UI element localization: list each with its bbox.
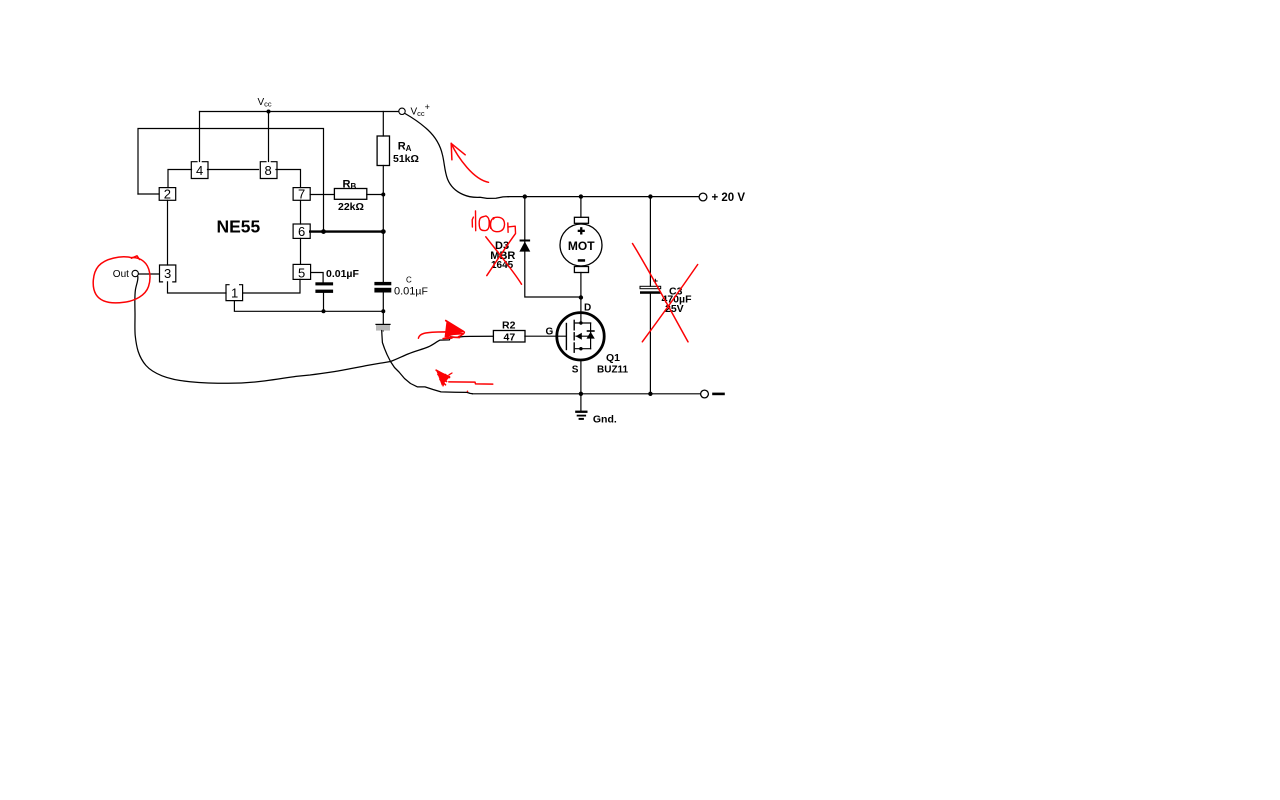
node thick bus junction right bbox=[381, 229, 386, 234]
motor MOT bottom terminal bbox=[574, 267, 588, 273]
capacitor C3 top plate outline bbox=[640, 286, 661, 288]
motor MOT body circle bbox=[560, 224, 602, 266]
wire pin2 to pin3 bbox=[167, 200, 169, 265]
wire pin4 left to pin2 top bbox=[168, 170, 192, 188]
wire ground rail bbox=[473, 393, 701, 395]
node RB-RA junction bbox=[381, 193, 385, 197]
terminal Vcc+ circle bbox=[399, 108, 405, 114]
resistor RB body bbox=[334, 189, 366, 200]
wire freehand Out to R2 bbox=[135, 277, 494, 384]
diode D3 cathode bar bbox=[520, 240, 531, 242]
pin 1 bbox=[226, 285, 243, 301]
wire source to ground rail bbox=[580, 360, 582, 394]
red circle annotation around Out bbox=[93, 257, 150, 303]
transistor Q1 channel dash mid bbox=[573, 333, 575, 340]
red circle overshoot tick bbox=[132, 256, 140, 260]
terminal minus circle bbox=[701, 390, 709, 398]
diode D3 triangle bbox=[519, 242, 530, 252]
svg-text:1: 1 bbox=[231, 286, 238, 301]
svg-text:6: 6 bbox=[298, 224, 305, 239]
wire motor bottom bbox=[580, 273, 582, 298]
transistor Q1 channel dash top bbox=[573, 320, 575, 329]
wire pin4 to pin8 bbox=[208, 169, 259, 171]
red arrow annotation near Vcc bbox=[451, 143, 488, 182]
pin 3 bbox=[160, 265, 176, 282]
wire cap1 bottom bbox=[323, 293, 325, 311]
wire C3 bottom bbox=[649, 294, 651, 394]
red arrow annotation pointing right at R2 wire bbox=[418, 332, 452, 338]
wire pin4 to Vcc bbox=[199, 112, 201, 162]
wire pin3 bottom to pin1 bbox=[168, 282, 227, 293]
wire pin7 to RB bbox=[310, 194, 334, 196]
node motor-drain junction bbox=[579, 295, 583, 299]
wire pin6 thick bus bbox=[310, 230, 383, 232]
svg-text:51kΩ: 51kΩ bbox=[393, 153, 419, 165]
wire motor top bbox=[580, 197, 582, 218]
svg-text:0.01µF: 0.01µF bbox=[394, 286, 428, 298]
transistor Q1 body stub bbox=[576, 335, 591, 337]
node rail junction C3 bbox=[648, 194, 652, 198]
svg-text:Out: Out bbox=[113, 269, 129, 280]
wire RB to RA column bbox=[367, 194, 384, 196]
motor minus sign bbox=[578, 259, 585, 262]
motor MOT top terminal bbox=[574, 217, 588, 223]
wire stub over grey mark bbox=[376, 323, 390, 325]
wire C3 top bbox=[649, 197, 651, 287]
svg-text:2: 2 bbox=[164, 187, 171, 202]
transistor Q1 body diode bar bbox=[587, 330, 595, 332]
svg-text:Gnd.: Gnd. bbox=[593, 414, 617, 426]
wire RA top bbox=[382, 112, 384, 137]
red X annotation over C3 bbox=[633, 244, 689, 342]
svg-text:NE55: NE55 bbox=[217, 217, 261, 237]
wire pin1 bottom rail bbox=[234, 301, 383, 312]
pin 2 bbox=[159, 188, 176, 201]
resistor R2 body bbox=[493, 331, 525, 343]
svg-text:MOT: MOT bbox=[568, 239, 595, 253]
wire pin6 to pin5 bbox=[300, 238, 302, 264]
transistor Q1 source stub bbox=[575, 348, 590, 350]
node Vcc junction dot bbox=[267, 110, 271, 114]
wire RA bottom to cap C bbox=[382, 166, 384, 282]
red X annotation over D3 bbox=[486, 237, 522, 284]
wire +20V rail bbox=[508, 196, 699, 198]
svg-text:4: 4 bbox=[196, 163, 203, 178]
pin 7 bbox=[293, 188, 310, 201]
capacitor C1 0.01uF plates bbox=[315, 282, 333, 285]
pin 8 bbox=[260, 162, 277, 179]
svg-text:5: 5 bbox=[298, 265, 305, 280]
svg-text:8: 8 bbox=[265, 163, 272, 178]
wire pin8 right to pin7 top bbox=[276, 170, 301, 188]
transistor Q1 body circle bbox=[557, 313, 604, 360]
wire upper loop pin2 to pin6 column bbox=[138, 129, 324, 232]
wire Out to pin3 bbox=[139, 273, 160, 275]
terminal Out circle bbox=[132, 270, 138, 276]
ground symbol bbox=[580, 394, 582, 411]
red scribble 100h bbox=[472, 211, 515, 233]
svg-text:Vcc: Vcc bbox=[258, 97, 272, 109]
svg-text:S: S bbox=[572, 365, 579, 376]
transistor Q1 drain stub bbox=[575, 322, 590, 324]
red arrow annotation pointing left at ground wire bbox=[436, 370, 451, 386]
wire R2 to gate bbox=[524, 335, 526, 337]
wire pin8 to Vcc bbox=[268, 112, 270, 162]
capacitor C plates bbox=[374, 282, 391, 285]
svg-text:47: 47 bbox=[504, 332, 516, 344]
node cap1 junction bbox=[322, 309, 326, 313]
svg-text:R2: R2 bbox=[502, 319, 516, 331]
transistor Q1 body arrow bbox=[576, 333, 582, 340]
svg-text:+ 20 V: + 20 V bbox=[712, 192, 746, 204]
node ground rail junction source bbox=[579, 392, 583, 396]
capacitor C3 bottom plate bbox=[640, 291, 661, 294]
svg-text:G: G bbox=[546, 327, 554, 338]
wire freehand Vcc to +20V rail bbox=[405, 114, 509, 199]
wire freehand stub to ground rail bbox=[382, 331, 473, 394]
terminal +20V circle bbox=[699, 193, 707, 201]
svg-text:22kΩ: 22kΩ bbox=[338, 201, 364, 213]
wire drain bbox=[580, 298, 582, 324]
pin 4 bbox=[191, 162, 208, 179]
transistor Q1 body diode triangle bbox=[587, 332, 595, 339]
node rail junction motor bbox=[579, 194, 583, 198]
wire capC bottom bbox=[382, 293, 384, 331]
wire Vcc top rail bbox=[200, 111, 399, 113]
node ground rail junction C3 bbox=[648, 392, 652, 396]
motor plus sign bbox=[578, 230, 585, 232]
pin 6 bbox=[293, 224, 310, 238]
diode D3 branch wire bbox=[525, 197, 581, 297]
transistor Q1 channel dash bottom bbox=[573, 343, 575, 352]
svg-text:Q1: Q1 bbox=[606, 352, 620, 364]
wire pin5 right to cap1 bbox=[311, 273, 324, 283]
svg-text:0.01µF: 0.01µF bbox=[326, 268, 359, 280]
wire pin2 left stub bbox=[138, 193, 159, 195]
grey selection mark bbox=[376, 324, 390, 331]
transistor Q1 gate bar bbox=[565, 324, 567, 350]
svg-text:3: 3 bbox=[164, 266, 171, 281]
resistor RA body bbox=[377, 136, 389, 166]
transistor Q1 body diode branch bbox=[590, 323, 592, 349]
wire gate bbox=[525, 335, 566, 337]
svg-text:BUZ11: BUZ11 bbox=[597, 365, 629, 376]
wire pin7 to pin6 bbox=[300, 200, 302, 224]
svg-text:7: 7 bbox=[298, 187, 305, 202]
node rail junction diode bbox=[523, 194, 527, 198]
pin 5 bbox=[293, 264, 311, 279]
svg-text:C: C bbox=[406, 276, 412, 285]
node thick bus junction left bbox=[321, 229, 326, 234]
node capC junction bbox=[381, 309, 385, 313]
terminal minus dash bbox=[714, 393, 724, 396]
wire pin1 right to pin5 bottom bbox=[243, 279, 300, 293]
